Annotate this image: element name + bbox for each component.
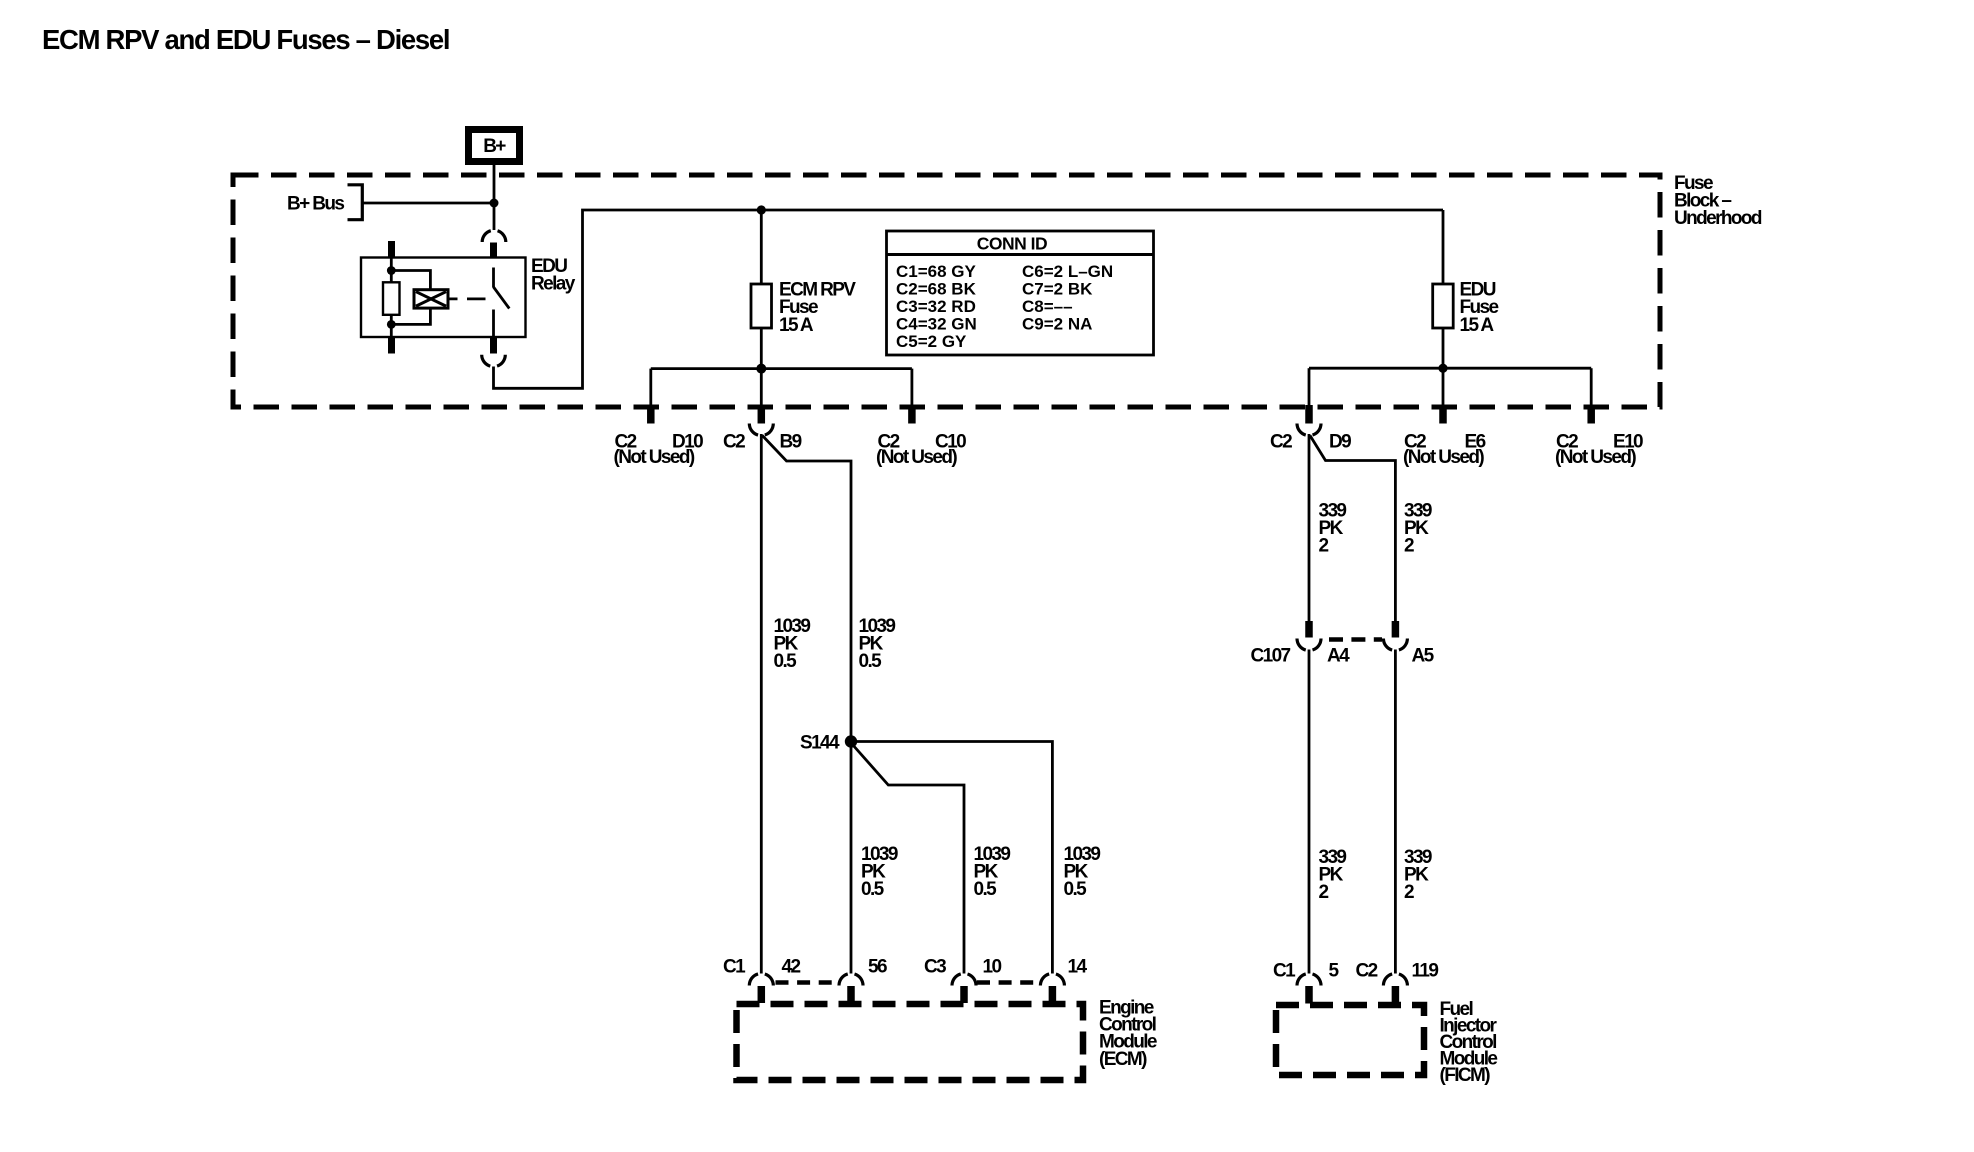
svg-text:C9=2 NA: C9=2 NA — [1022, 315, 1092, 334]
wire D9 drop — [1308, 368, 1311, 407]
svg-text:B+: B+ — [483, 136, 506, 157]
svg-text:0.5: 0.5 — [774, 651, 798, 672]
node coil top junction — [387, 266, 396, 275]
pin stub FICM 5 — [1305, 986, 1313, 1004]
wire EDU fuse to branch — [1442, 328, 1445, 405]
wire C107 A5 to FICM pin 119 — [1394, 650, 1397, 974]
pin stub B9 — [758, 405, 766, 424]
wire B+ drop — [493, 165, 496, 230]
connector arc C107 A4 — [1297, 639, 1321, 651]
connector arc ECM pin 56 — [839, 974, 863, 986]
label C2 E10 Not Used — [1555, 431, 1643, 468]
svg-text:CONN ID: CONN ID — [977, 234, 1047, 254]
fuse EDU 15A — [1433, 284, 1454, 328]
splice S144 — [845, 735, 857, 747]
svg-text:C1: C1 — [1273, 961, 1296, 982]
pin stub ECM 42 — [758, 986, 766, 1003]
svg-text:C2: C2 — [1270, 431, 1292, 452]
svg-text:B+ Bus: B+ Bus — [287, 194, 344, 215]
svg-text:Relay: Relay — [531, 274, 576, 295]
pin stub D10 — [647, 405, 655, 424]
label circuit 339 PK 2 (pin 5) — [1319, 847, 1347, 903]
connector arc ECM pin 42 — [749, 974, 773, 986]
label C2 E6 Not Used — [1403, 431, 1486, 468]
wire fuse output branch — [651, 367, 912, 370]
connector arc ECM pin 14 — [1040, 974, 1064, 986]
svg-text:119: 119 — [1412, 961, 1439, 982]
svg-text:Underhood: Underhood — [1674, 208, 1762, 229]
svg-text:0.5: 0.5 — [859, 651, 883, 672]
svg-text:(Not Used): (Not Used) — [1403, 447, 1484, 468]
svg-text:C5=2 GY: C5=2 GY — [896, 332, 967, 351]
svg-text:B9: B9 — [780, 431, 802, 452]
pin stub ECM 10 — [960, 986, 968, 1003]
label circuit 1039 PK 0.5 (pin 14) — [1064, 844, 1101, 900]
wire S144 to ECM pin 14 — [851, 742, 1052, 974]
B+ power terminal — [469, 130, 520, 162]
wire relay output to top bus — [494, 210, 1444, 388]
wire B9 to ECM pin 42 — [760, 434, 763, 974]
connector arc D9 — [1297, 424, 1321, 436]
wire S144 to ECM pin 10 — [852, 744, 964, 974]
svg-text:ECM RPV and EDU Fuses – Diesel: ECM RPV and EDU Fuses – Diesel — [42, 24, 449, 55]
relay switch pin stub top — [490, 243, 497, 258]
connector arc C107 A5 — [1383, 639, 1407, 651]
node fuse branch junction — [756, 364, 766, 374]
svg-text:C6=2 L–GN: C6=2 L–GN — [1022, 262, 1113, 281]
label C2 D9 — [1270, 431, 1351, 452]
label circuit 1039 PK 0.5 (left upper) — [774, 616, 811, 672]
wire S144 to ECM pin 56 — [850, 742, 853, 974]
svg-text:0.5: 0.5 — [974, 879, 998, 900]
svg-text:(Not Used): (Not Used) — [614, 447, 695, 468]
wire resistor bottom — [390, 315, 393, 337]
wire coil feed — [390, 258, 393, 283]
connector arc relay pin bottom — [482, 355, 506, 367]
wire top bus to ECM RPV fuse — [760, 210, 763, 284]
pin stub E10 — [1587, 405, 1595, 424]
svg-text:S144: S144 — [800, 733, 840, 754]
wire D10 drop — [649, 369, 652, 407]
dashed connector line ECM C1 — [776, 980, 840, 985]
relay coil pin stub top — [388, 241, 395, 258]
connector arc relay pin top — [482, 230, 506, 242]
label Fuse Block - Underhood — [1674, 173, 1762, 229]
node coil bottom junction — [387, 320, 396, 329]
connector arc FICM pin 119 — [1383, 974, 1407, 986]
pin stub ECM 56 — [847, 986, 855, 1003]
wire D9 to C107 A5 — [1310, 436, 1395, 622]
svg-text:42: 42 — [782, 957, 801, 978]
relay actuator dashed link — [448, 297, 486, 300]
connector arc B9 — [749, 424, 773, 436]
pin stub C107 A4 — [1305, 621, 1313, 638]
module box FICM dashed — [1276, 1005, 1424, 1075]
svg-text:C1: C1 — [723, 957, 746, 978]
B+ bus bracket — [348, 185, 363, 220]
label circuit 1039 PK 0.5 (pin 56) — [861, 844, 898, 900]
svg-text:C107: C107 — [1251, 646, 1291, 667]
label C2 D10 Not Used — [614, 431, 704, 468]
svg-text:2: 2 — [1319, 882, 1329, 903]
module box ECM dashed — [737, 1004, 1084, 1080]
fuse block underhood dashed box — [233, 175, 1660, 407]
svg-text:(FICM): (FICM) — [1440, 1065, 1491, 1086]
node ECM RPV fuse tap — [757, 205, 766, 214]
fuse ECM RPV 15A — [751, 284, 772, 328]
dashed connector line ECM C3 — [977, 980, 1040, 985]
svg-text:2: 2 — [1404, 536, 1414, 557]
relay coil — [414, 290, 448, 308]
svg-text:C4=32 GN: C4=32 GN — [896, 315, 977, 334]
svg-text:D9: D9 — [1329, 431, 1351, 452]
svg-text:2: 2 — [1319, 536, 1329, 557]
wire B9 to S144 — [762, 436, 851, 736]
label circuit 339 PK 2 (A4 upper) — [1319, 501, 1347, 557]
label C107 A4 A5 — [1251, 646, 1435, 667]
svg-text:2: 2 — [1404, 882, 1414, 903]
CONN ID table — [887, 231, 1154, 355]
label Engine Control Module ECM — [1099, 998, 1157, 1070]
wire fuse to branch — [760, 328, 763, 405]
svg-text:(Not Used): (Not Used) — [1555, 447, 1636, 468]
svg-text:C7=2 BK: C7=2 BK — [1022, 280, 1093, 299]
svg-text:15 A: 15 A — [779, 315, 814, 336]
wire EDU output branch — [1309, 367, 1591, 370]
wire C107 A4 to FICM pin 5 — [1308, 650, 1311, 974]
relay coil pin stub bottom — [388, 337, 395, 354]
svg-text:14: 14 — [1068, 957, 1088, 978]
wire coil branch bottom — [391, 308, 430, 324]
relay switch pin stub bottom — [490, 337, 497, 354]
svg-text:0.5: 0.5 — [1064, 879, 1088, 900]
wire top bus to EDU fuse — [1442, 210, 1445, 284]
wire D9 to C107 A4 — [1308, 434, 1311, 622]
wire B+ bus — [362, 202, 494, 205]
svg-text:C8=––: C8=–– — [1022, 297, 1073, 316]
svg-text:A5: A5 — [1412, 646, 1435, 667]
label ECM pins C1 42 56 C3 10 14 — [723, 957, 1087, 978]
svg-text:C2: C2 — [723, 431, 745, 452]
dashed connector line C107 — [1329, 637, 1382, 642]
svg-text:A4: A4 — [1327, 646, 1350, 667]
relay switch contact — [494, 268, 510, 338]
svg-text:56: 56 — [868, 957, 887, 978]
label circuit 1039 PK 0.5 (right upper) — [859, 616, 896, 672]
label ECM RPV Fuse 15A — [779, 280, 856, 337]
node B+ bus junction — [490, 199, 499, 208]
svg-text:C1=68 GY: C1=68 GY — [896, 262, 977, 281]
label EDU Fuse 15A — [1460, 280, 1499, 337]
svg-text:(ECM): (ECM) — [1099, 1049, 1147, 1070]
node EDU branch junction — [1438, 364, 1447, 373]
wire C10 drop — [911, 369, 914, 407]
pin stub D9 — [1305, 405, 1313, 424]
connector arc FICM pin 5 — [1297, 974, 1321, 986]
label C2 C10 Not Used — [876, 431, 966, 468]
label FICM pins C1 5 C2 119 — [1273, 961, 1438, 982]
label circuit 339 PK 2 (A5 upper) — [1404, 501, 1432, 557]
svg-text:C2=68 BK: C2=68 BK — [896, 280, 977, 299]
svg-text:C3: C3 — [924, 957, 946, 978]
pin stub FICM 119 — [1392, 986, 1400, 1004]
label circuit 1039 PK 0.5 (pin 10) — [974, 844, 1011, 900]
svg-text:C3=32 RD: C3=32 RD — [896, 297, 976, 316]
pin stub E6 — [1439, 405, 1447, 424]
label C2 B9 — [723, 431, 802, 452]
pin stub C107 A5 — [1392, 621, 1400, 638]
label circuit 339 PK 2 (pin 119) — [1404, 847, 1432, 903]
wire E10 drop — [1590, 368, 1593, 407]
svg-text:C2: C2 — [1356, 961, 1378, 982]
label Fuel Injector Control Module FICM — [1440, 999, 1498, 1086]
svg-text:10: 10 — [983, 957, 1002, 978]
svg-text:(Not Used): (Not Used) — [876, 447, 957, 468]
svg-text:0.5: 0.5 — [861, 879, 885, 900]
pin stub ECM 14 — [1049, 986, 1057, 1003]
relay box EDU Relay — [361, 258, 526, 338]
wire coil branch top — [391, 271, 430, 290]
pin stub C10 — [908, 405, 916, 424]
connector arc ECM pin 10 — [952, 974, 976, 986]
label EDU Relay — [531, 256, 576, 295]
resistor relay suppression — [383, 282, 400, 315]
svg-text:15 A: 15 A — [1460, 315, 1495, 336]
